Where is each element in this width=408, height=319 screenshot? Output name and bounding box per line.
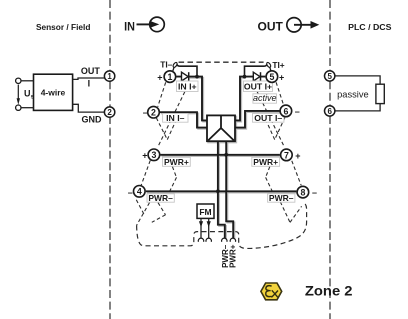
dashed fan 2 to vertex [156,118,167,140]
module terminal 7 [281,149,293,161]
svg-text:1: 1 [107,72,112,81]
PLC-side terminal 6 [325,106,335,116]
svg-text:5: 5 [327,72,332,81]
module terminal 3 [148,149,160,161]
dashed fan PWR+ label to vertex [172,167,176,178]
header IN with arrow-into-circle symbol [124,17,164,33]
svg-text:FM: FM [199,207,211,217]
wire terminal 6 to isolator (OUT I-) [235,111,280,128]
junction node before D2 [243,75,247,79]
Us voltage arrow [17,85,20,105]
dashed fan 6 to vertex [275,118,285,140]
dashed module bottom outline [137,203,307,249]
svg-text:Sensor / Field: Sensor / Field [36,22,91,32]
dashed fan vertex to PWR- label [169,177,177,193]
4-wire transmitter box [34,74,73,110]
supply terminal bottom-left [16,105,21,110]
dashed boundary line left (Sensor/Field | module) [109,0,111,319]
wire box to terminal 2 (GND) [73,104,105,112]
svg-text:7: 7 [284,150,289,160]
dashed fan PWR- label down-right [158,203,166,215]
svg-text:IN: IN [124,20,135,33]
wire load resistor to PLC terminal 6 [335,104,380,111]
supply terminal top-left [16,78,21,83]
svg-text:6: 6 [327,107,332,116]
svg-text:PWR+: PWR+ [253,157,278,167]
svg-text:U: U [24,89,31,99]
svg-text:Zone 2: Zone 2 [305,283,353,299]
FM pin wire left with arrow [199,219,203,238]
diode D2 output [253,72,260,81]
svg-text:2: 2 [107,108,112,117]
svg-text:+: + [279,73,284,83]
wire box to terminal 1 (OUT I) [73,78,105,79]
dashed fan OUT I+ label to 7 [257,92,284,147]
dashed fan vertex to 8 [290,206,302,222]
wire PWR+ rail terminal 3 to 7 [160,154,280,156]
load resistor (passive) [376,84,384,103]
FM plug contact left [198,238,203,242]
svg-text:PWR+: PWR+ [229,244,238,268]
svg-text:IN I–: IN I– [166,113,185,123]
svg-text:PWR–: PWR– [148,193,173,203]
svg-text:s: s [31,94,35,101]
TI+ test tab link wire [245,64,267,76]
wire isolator to PWR- plug pin [218,142,225,239]
svg-text:OUT I+: OUT I+ [244,81,272,91]
wire PWR- rail terminal 4 to 8 [146,190,297,192]
svg-text:4: 4 [137,187,142,197]
diode D1 input [182,72,189,81]
label Us [24,89,35,101]
wire isolator to PWR+ plug pin [226,142,233,239]
svg-text:PWR+: PWR+ [164,157,189,167]
svg-text:1: 1 [167,72,172,82]
label box PWR- right [268,193,295,203]
dashed fan 4 down [136,200,144,214]
svg-text:TI+: TI+ [272,60,284,70]
FM plug contact right [206,238,212,242]
module terminal 8 [297,186,309,198]
Ex hexagon approval mark [261,283,282,300]
svg-text:4-wire: 4-wire [41,87,66,97]
svg-text:+: + [157,73,162,83]
dashed fan vertex back [152,215,166,223]
dashed fan PWR- label down-left [137,203,150,226]
FM pin wire right with arrow [207,219,211,238]
PWR+ plug contact [230,238,236,242]
svg-text:passive: passive [337,89,369,99]
svg-text:OUT: OUT [81,66,101,76]
svg-text:OUT I–: OUT I– [254,113,282,123]
module terminal 6 [280,105,292,117]
svg-text:GND: GND [82,114,103,124]
svg-text:2: 2 [151,108,156,118]
junction node PWR+ [224,153,228,157]
svg-text:5: 5 [269,72,274,82]
dashed fan 7 to 8 [292,161,301,186]
svg-text:+: + [295,151,300,161]
svg-text:6: 6 [283,106,288,116]
module terminal 1 [164,71,176,83]
label box IN I- [163,113,188,123]
svg-text:–: – [295,107,300,117]
header OUT with arrow-out-of-circle symbol [258,18,320,34]
svg-text:IN I+: IN I+ [178,81,197,91]
dashed fan vertex to OUT I- label [266,121,274,140]
svg-text:active: active [253,93,277,103]
dashed fan vertex to PWR- label right [266,177,274,193]
field-side terminal 1 [104,71,114,81]
dashed fan IN I+ label to 3 [158,92,185,147]
wire PLC terminal 5 to load resistor [335,76,380,84]
label box OUT I- [253,113,284,123]
module terminal 5 [266,71,278,83]
label box PWR+ right [252,157,280,167]
label box active [253,93,277,103]
svg-text:I: I [88,78,91,88]
PLC-side terminal 5 [325,71,335,81]
svg-text:PLC / DCS: PLC / DCS [348,22,392,32]
PWR- plug contact [222,238,227,242]
dashed fan 3 to 4 [141,161,150,186]
isolation transformer [207,115,235,141]
field-side terminal 2 [104,107,114,117]
dashed boundary line right (module | PLC/DCS) [329,0,331,319]
wire supply bottom to box [21,107,34,109]
TI+ test tab loop [266,62,272,71]
dashed module outline fan left 1-2 [158,82,166,107]
dashed fan PWR+ label right to vertex [266,167,270,178]
svg-text:+: + [142,151,147,161]
svg-text:–: – [143,107,148,117]
dashed module outline fan right 5-6 [276,82,284,106]
svg-text:–: – [128,188,133,198]
svg-text:PWR–: PWR– [269,193,294,203]
svg-text:–: – [312,188,317,198]
junction node after D1 [195,75,199,79]
junction node PWR- [216,189,220,193]
module terminal 4 [134,186,146,198]
label box PWR- left [147,193,174,203]
TI- test tab link wire [177,64,197,76]
svg-text:OUT: OUT [258,20,284,33]
wire isolator via diode to terminal 5 (OUT I+) [235,77,266,121]
dashed test-interface line TI- to TI+ [179,61,264,63]
dashed fan vertex to IN I- label [167,121,176,140]
dashed fan PWR- right label down [280,202,290,223]
label box PWR+ left [163,157,191,167]
wire terminal 1 via diode to isolator (IN I+) [176,77,207,121]
svg-text:TI–: TI– [160,59,172,69]
wire terminal 2 to isolator (IN I-) [160,112,207,127]
svg-text:3: 3 [151,150,156,160]
svg-text:8: 8 [300,188,305,198]
TI- test tab loop [172,62,178,71]
label box IN I+ [177,81,199,92]
wire supply top to box [21,80,34,82]
module terminal 2 [148,106,160,118]
label box OUT I+ [244,81,273,92]
FM configuration interface box [197,204,214,218]
wire shadows [147,78,298,240]
